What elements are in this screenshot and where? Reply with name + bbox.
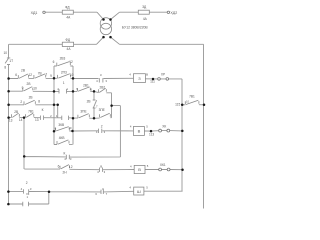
svg-text:2В: 2В [14, 110, 18, 114]
svg-text:Ш: Ш [137, 189, 141, 194]
svg-text:В: В [100, 165, 102, 169]
svg-text:ХД2: ХД2 [170, 11, 177, 15]
svg-text:2В3: 2В3 [60, 57, 66, 61]
svg-text:6: 6 [53, 60, 55, 64]
svg-text:6: 6 [15, 73, 17, 77]
svg-text:ХР: ХР [161, 72, 165, 76]
svg-text:7: 7 [45, 73, 47, 77]
svg-text:В: В [138, 167, 141, 172]
svg-text:10: 10 [68, 126, 72, 130]
svg-text:1Т: 1Т [9, 59, 13, 63]
svg-text:2В: 2В [27, 82, 31, 86]
svg-text:2В: 2В [21, 68, 25, 72]
svg-text:13: 13 [9, 118, 13, 122]
svg-text:8: 8 [4, 65, 6, 69]
svg-text:10: 10 [4, 51, 8, 55]
svg-text:7В1: 7В1 [28, 109, 34, 113]
svg-text:115: 115 [175, 102, 180, 106]
svg-text:2Н: 2Н [62, 170, 67, 174]
svg-text:7В: 7В [38, 71, 42, 75]
svg-text:ХК1: ХК1 [160, 163, 166, 167]
svg-text:8: 8 [38, 100, 40, 104]
svg-text:ХК: ХК [162, 124, 166, 128]
svg-text:3ПЕ: 3ПЕ [99, 108, 105, 112]
svg-text:2В: 2В [87, 100, 91, 104]
svg-text:К: К [42, 108, 44, 112]
svg-text:2В1: 2В1 [83, 83, 89, 87]
svg-text:12: 12 [69, 60, 73, 64]
svg-text:2: 2 [26, 181, 28, 185]
svg-text:13: 13 [35, 118, 39, 122]
svg-text:ХД1: ХД1 [31, 11, 38, 15]
svg-text:4КВ: 4КВ [59, 136, 65, 140]
svg-text:2В2: 2В2 [99, 86, 105, 90]
svg-text:2: 2 [20, 100, 22, 104]
svg-text:9: 9 [22, 86, 24, 90]
svg-text:6: 6 [58, 164, 60, 168]
svg-text:В: В [146, 72, 148, 76]
svg-text:К: К [63, 152, 65, 156]
svg-text:12: 12 [29, 73, 33, 77]
svg-text:БУ12 380В/220В: БУ12 380В/220В [122, 25, 149, 29]
svg-text:В: В [138, 129, 141, 134]
svg-text:12: 12 [69, 165, 73, 169]
svg-text:2П3: 2П3 [61, 70, 67, 74]
svg-text:9: 9 [50, 74, 52, 78]
svg-text:10: 10 [70, 73, 74, 77]
svg-text:2В: 2В [29, 96, 33, 100]
svg-text:111: 111 [150, 80, 155, 84]
svg-text:14: 14 [19, 118, 23, 122]
svg-text:2: 2 [101, 124, 103, 128]
svg-text:3КВ: 3КВ [58, 123, 64, 127]
svg-text:1: 1 [63, 81, 65, 85]
svg-text:10: 10 [33, 86, 37, 90]
svg-text:3ПЕ: 3ПЕ [80, 109, 86, 113]
svg-text:113: 113 [149, 132, 154, 136]
svg-text:7В1: 7В1 [189, 95, 195, 99]
